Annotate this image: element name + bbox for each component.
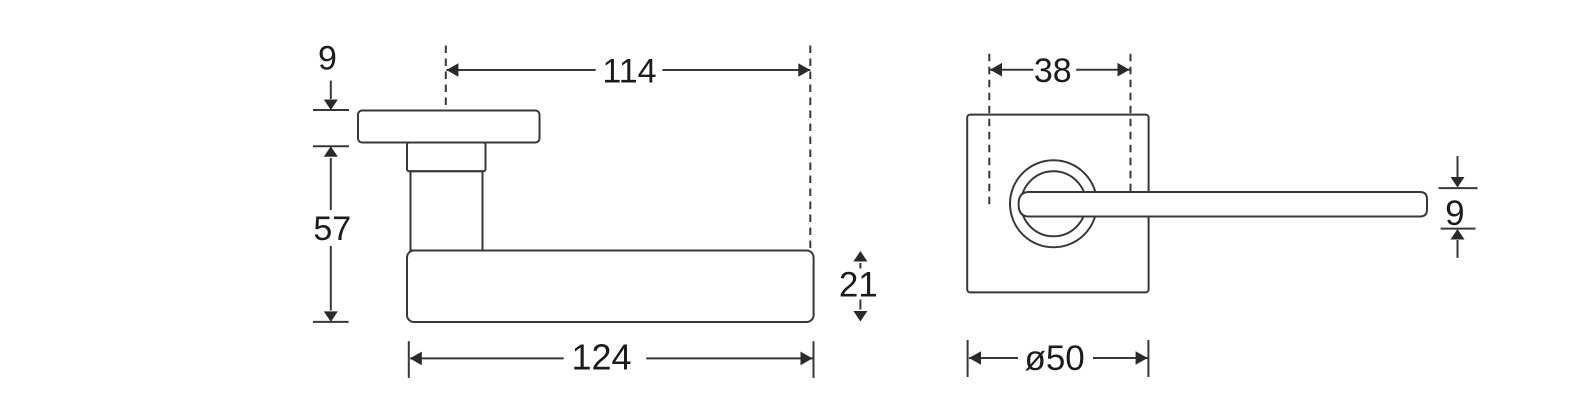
dimension 38 arrowheads (990, 63, 1002, 77)
dimension ø50 arrowheads (969, 351, 981, 365)
inner circle of round rose (1021, 171, 1086, 236)
square rose plate front view (967, 115, 1148, 293)
dimension 57 bottom tick (313, 321, 349, 323)
dimension 114 arrowheads (446, 63, 458, 77)
dimension ø50 extension lines (968, 340, 1149, 377)
collar below rose (407, 143, 486, 172)
lever grip side view (407, 251, 814, 323)
svg-text:38: 38 (1034, 52, 1072, 90)
rose plate side view (358, 111, 540, 143)
svg-text:57: 57 (313, 210, 351, 248)
dimension 21 up arrow (859, 263, 861, 269)
svg-text:9: 9 (1445, 194, 1464, 233)
dimension 9 ticks (left top) (313, 110, 349, 146)
dimension 9 (front view) ticks (1439, 188, 1478, 229)
dimension 38 left dashed extension line (988, 54, 990, 207)
svg-text:ø50: ø50 (1024, 339, 1084, 378)
stem / neck (411, 171, 483, 250)
dimension 124 extension lines (409, 341, 814, 378)
svg-text:114: 114 (602, 53, 656, 91)
dimension 38 right dashed extension line (1130, 54, 1132, 193)
dimension ø50 line (969, 357, 1148, 359)
dimension 9 down arrow (330, 81, 332, 99)
dimension 114: right dashed extension line (809, 46, 811, 251)
dimension 38 line (990, 69, 1130, 71)
svg-text:124: 124 (571, 336, 631, 377)
outer circle of round rose (1010, 160, 1097, 247)
dimension 114 line (446, 69, 810, 71)
dimension 124 line (410, 357, 812, 359)
svg-text:21: 21 (839, 266, 878, 305)
dimension 21 down arrow (859, 300, 861, 310)
dimension 9 (front view) bottom arrow (1451, 229, 1465, 240)
svg-text:9: 9 (318, 39, 337, 77)
lever bar front view (1019, 192, 1427, 217)
dimension 114: left dashed extension line (445, 46, 447, 109)
dimension 9 (front view) top arrow (1457, 156, 1459, 178)
dimension 124 arrowheads (410, 352, 422, 366)
dimension 57 vertical line with arrows (330, 158, 332, 311)
